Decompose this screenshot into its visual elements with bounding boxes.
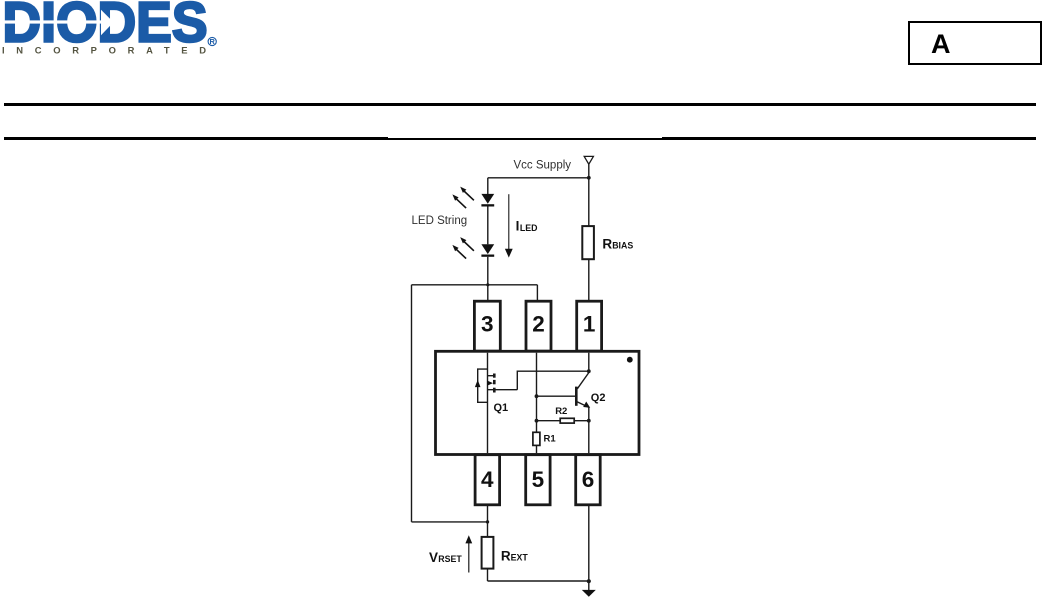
- svg-text:6: 6: [582, 467, 595, 492]
- header rule 2 middle thin segment: [388, 138, 662, 140]
- svg-text:LED String: LED String: [412, 215, 468, 227]
- svg-text:EXT: EXT: [511, 553, 529, 563]
- svg-text:4: 4: [481, 467, 494, 492]
- svg-text:R2: R2: [555, 406, 567, 417]
- current arrow ILED: [508, 194, 510, 249]
- IC body U1: [436, 351, 640, 454]
- ground symbol: [582, 590, 596, 597]
- header rule 1: [4, 103, 1036, 106]
- pin 1 marker dot: [627, 357, 633, 363]
- wire pin2 to pin5 internal: [536, 353, 538, 453]
- svg-text:R: R: [501, 548, 511, 563]
- pin 1: [577, 301, 602, 351]
- wire left feedback vertical: [411, 285, 413, 522]
- label ILED: [516, 219, 538, 234]
- wire into pin 3: [487, 285, 489, 302]
- label RBIAS: [602, 236, 633, 251]
- header rule 2 right segment: [662, 137, 1036, 140]
- transistor Q2 (NPN): [537, 373, 589, 408]
- resistor R1: [533, 432, 540, 445]
- node Vcc junction: [587, 176, 591, 180]
- label VRSET: [429, 550, 462, 565]
- wire Vcc top horizontal: [488, 177, 589, 179]
- arrow VRSET: [468, 543, 470, 573]
- node R2 left junction: [535, 419, 539, 423]
- transistor Q1 (MOSFET): [478, 369, 518, 402]
- logo diode stripe: [0, 20, 102, 23]
- wire pin6 stem: [588, 505, 590, 591]
- node pin4/feedback junction: [486, 520, 489, 523]
- resistor RBIAS: [588, 178, 590, 226]
- wire pin3 to pin4 internal: [487, 353, 489, 453]
- node LED/pin3 junction: [486, 283, 489, 286]
- Q1 body arrow: [487, 381, 493, 386]
- logo registered mark: [208, 37, 216, 45]
- Q2 emitter arrow: [583, 402, 590, 408]
- logo diode arrowhead: [101, 10, 114, 35]
- svg-text:I: I: [516, 219, 520, 234]
- revision box: [908, 21, 1042, 65]
- pin 4: [475, 455, 500, 505]
- LED D2 light arrows: [456, 242, 474, 259]
- svg-text:R: R: [602, 236, 612, 251]
- node collector junction: [587, 369, 591, 373]
- pin 3: [474, 301, 500, 351]
- revision letter A: [931, 33, 951, 55]
- wire into pin 2: [536, 285, 538, 302]
- svg-text:2: 2: [532, 311, 545, 336]
- wire Vcc stem: [588, 164, 590, 178]
- LED D1: [481, 194, 494, 207]
- Diodes Incorporated logo: [0, 0, 240, 60]
- svg-text:5: 5: [532, 467, 545, 492]
- wire Q2 emitter drop: [588, 407, 590, 420]
- pin 2: [526, 301, 551, 351]
- pin 5: [526, 455, 550, 505]
- LED D2: [481, 244, 494, 256]
- resistor R2: [537, 420, 561, 422]
- wire ground bottom horizontal: [488, 580, 589, 582]
- svg-text:BIAS: BIAS: [612, 241, 633, 251]
- wire feedback bottom horizontal: [412, 521, 488, 523]
- LED D1 light arrows: [456, 191, 474, 208]
- svg-text:Q2: Q2: [591, 392, 606, 404]
- resistor REXT: [482, 537, 494, 569]
- svg-text:1: 1: [583, 311, 596, 336]
- wire pin6 internal lower: [588, 421, 590, 453]
- wire LED1 to LED2: [487, 207, 489, 245]
- wire to LED1: [487, 178, 489, 194]
- svg-text:3: 3: [481, 311, 494, 336]
- node R2 right junction: [587, 419, 591, 423]
- svg-text:Vcc Supply: Vcc Supply: [514, 159, 572, 171]
- Vcc terminal: [584, 156, 593, 164]
- pin 6: [576, 455, 601, 505]
- svg-text:Q1: Q1: [494, 402, 509, 414]
- wire LED2 down to node: [487, 257, 489, 285]
- wire horizontal feedback top: [412, 284, 538, 286]
- svg-text:LED: LED: [520, 223, 538, 233]
- Q1 bulk arrow: [475, 380, 481, 387]
- wire pin1 internal: [588, 353, 590, 372]
- svg-text:V: V: [429, 550, 438, 565]
- wire Q1 gate riser: [517, 371, 589, 390]
- label REXT: [501, 548, 528, 563]
- svg-text:RSET: RSET: [438, 554, 462, 564]
- node ground junction: [587, 579, 591, 583]
- svg-text:R1: R1: [544, 434, 557, 445]
- header rule 2 left segment: [4, 137, 388, 140]
- wire pin4 stem: [487, 505, 489, 537]
- node Q2 base junction: [535, 394, 539, 398]
